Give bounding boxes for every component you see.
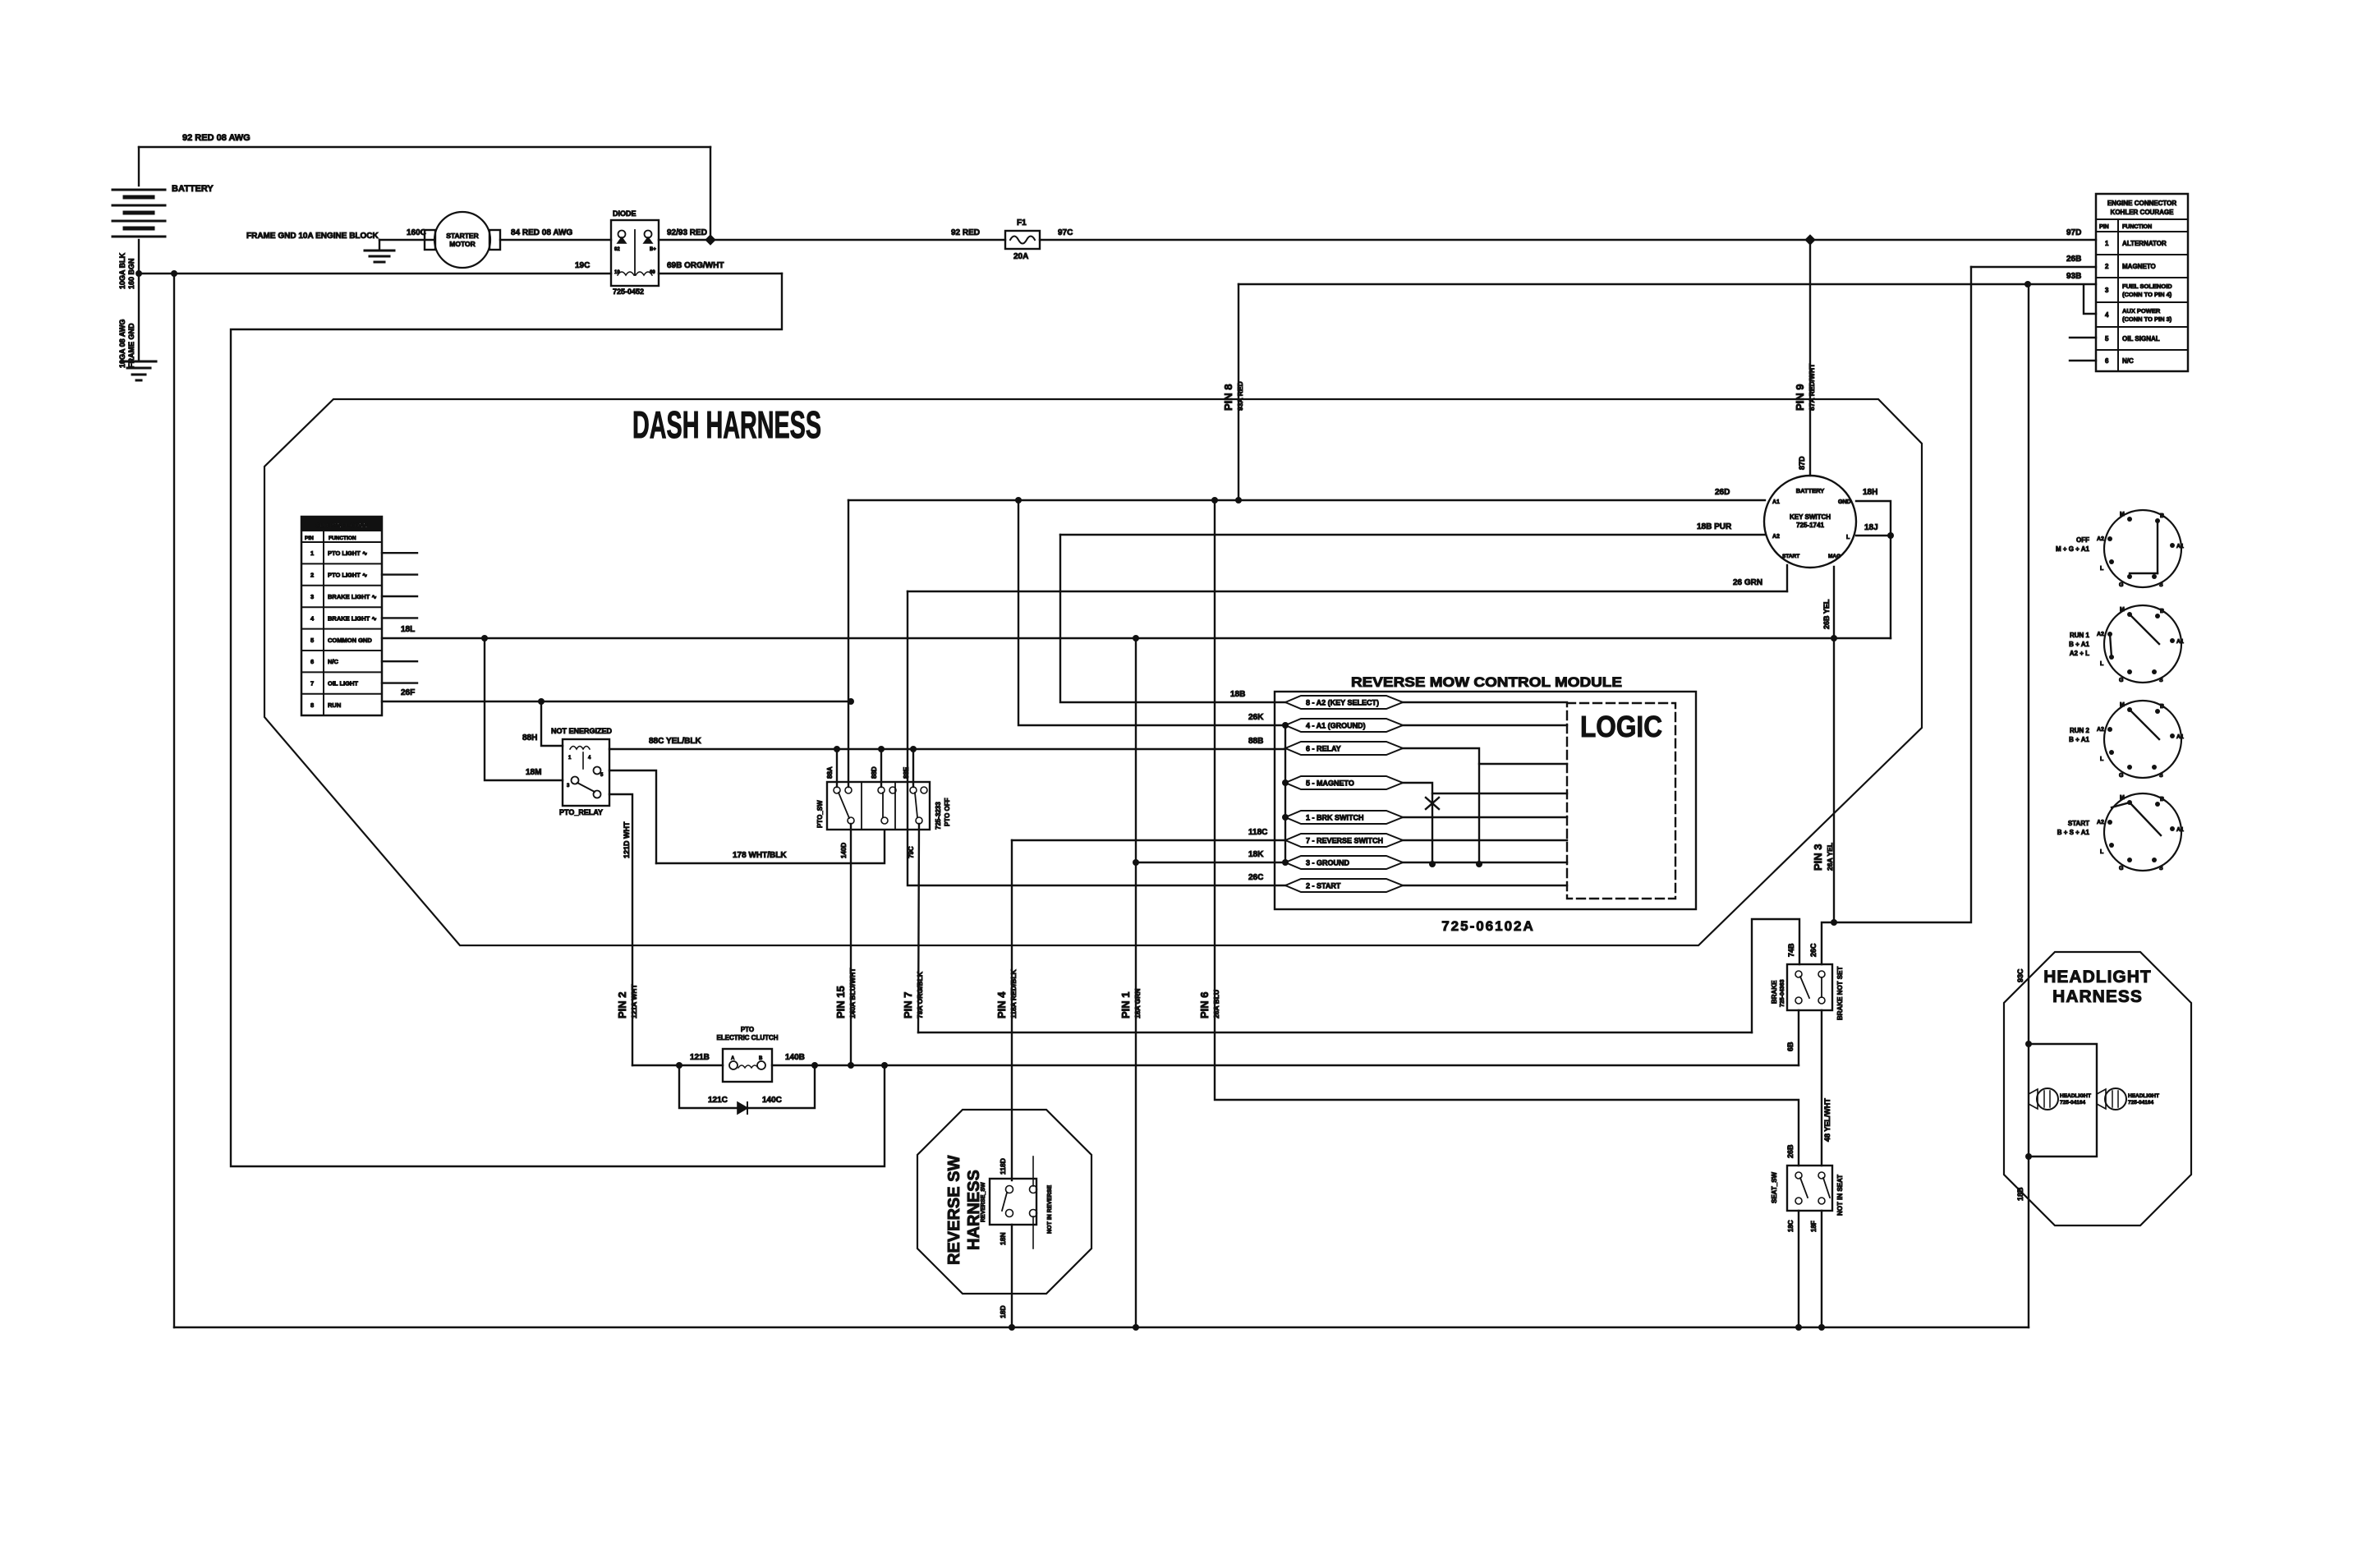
svg-text:1 - BRK SWITCH: 1 - BRK SWITCH xyxy=(1306,814,1364,822)
wire 97C fuse to engine xyxy=(1040,239,2096,241)
ground symbol engine block xyxy=(379,240,380,251)
svg-text:S: S xyxy=(2159,678,2163,683)
svg-text:19: 19 xyxy=(614,270,620,275)
svg-text:B: B xyxy=(2160,513,2164,519)
engine connector table KOHLER COURAGE xyxy=(2096,194,2188,371)
svg-text:A2 + L: A2 + L xyxy=(2070,650,2089,657)
wire 69B loop down-left xyxy=(231,274,885,1166)
svg-text:92: 92 xyxy=(614,247,620,252)
svg-text:S: S xyxy=(2159,866,2163,871)
starter motor M1 xyxy=(425,230,435,250)
svg-text:PIN 4: PIN 4 xyxy=(995,991,1008,1019)
svg-text:BRAKE LIGHT ∿: BRAKE LIGHT ∿ xyxy=(328,593,377,600)
svg-text:M + G + A1: M + G + A1 xyxy=(2056,545,2090,553)
reverse switch harness octagon xyxy=(917,1110,1091,1294)
lamp DS2 headlight right xyxy=(2097,1089,2106,1109)
module pin 6 RELAY connector xyxy=(1285,742,1403,755)
switch S5 REVERSE_SW xyxy=(990,1179,1036,1225)
svg-text:18D: 18D xyxy=(999,1305,1007,1318)
svg-text:A2: A2 xyxy=(2097,727,2104,733)
relay K1 PTO_RELAY xyxy=(563,739,609,806)
svg-text:PTO LIGHT ∿: PTO LIGHT ∿ xyxy=(328,572,368,579)
svg-text:26A YEL: 26A YEL xyxy=(1826,843,1834,871)
svg-text:PIN: PIN xyxy=(2099,224,2109,230)
svg-text:PIN 7: PIN 7 xyxy=(902,991,914,1019)
svg-text:2 - START: 2 - START xyxy=(1306,882,1341,890)
ground symbol frame ground battery xyxy=(138,274,140,360)
wire 140B clutch right xyxy=(772,1064,1799,1066)
svg-text:BATTERY: BATTERY xyxy=(172,184,214,194)
svg-text:6B: 6B xyxy=(1786,1042,1795,1051)
svg-text:26A BLU: 26A BLU xyxy=(1212,990,1220,1019)
svg-text:PIN 3: PIN 3 xyxy=(1812,844,1824,871)
ground bus bottom xyxy=(174,1327,2029,1328)
wire 48 YEL/WHT brake to seat xyxy=(1821,1010,1822,1166)
wire 26K to module A1 ground pill xyxy=(1018,500,1285,725)
battery negative bus 19C xyxy=(139,273,611,274)
wire 160C ground to starter xyxy=(379,239,434,241)
svg-text:GND: GND xyxy=(1838,499,1851,505)
svg-text:BRAKE: BRAKE xyxy=(1771,980,1778,1004)
svg-text:725-1741: 725-1741 xyxy=(1796,522,1824,529)
svg-text:121A WHT: 121A WHT xyxy=(630,983,638,1019)
key position diagram RUN 1 xyxy=(2104,605,2181,683)
svg-text:2: 2 xyxy=(310,572,314,579)
svg-text:STARTER: STARTER xyxy=(446,232,479,240)
svg-text:BATTERY: BATTERY xyxy=(1796,487,1825,494)
wire 26B magneto line to engine pin 2 xyxy=(1971,266,2096,268)
svg-text:A1: A1 xyxy=(2176,827,2184,833)
svg-text:18H: 18H xyxy=(1863,488,1877,497)
svg-text:93A RED: 93A RED xyxy=(1236,381,1244,411)
svg-text:18F: 18F xyxy=(1810,1221,1818,1232)
svg-text:START: START xyxy=(2068,820,2089,827)
wire 84 RED 08 AWG starter to diode xyxy=(500,239,611,241)
svg-text:A1: A1 xyxy=(2176,734,2184,740)
svg-text:121D WHT: 121D WHT xyxy=(623,821,631,858)
svg-text:18A GRN: 18A GRN xyxy=(1133,988,1142,1019)
svg-text:REVERSE_SW: REVERSE_SW xyxy=(981,1182,986,1222)
wire 92/93 RED diode output xyxy=(659,239,1005,241)
svg-text:MAGNETO: MAGNETO xyxy=(2122,263,2156,270)
wire 18N reverse switch out xyxy=(1011,1225,1013,1327)
svg-text:ENGINE CONNECTOR: ENGINE CONNECTOR xyxy=(2107,200,2177,207)
wire 93B fuel solenoid line to engine pin 3 xyxy=(1239,283,2096,285)
svg-text:79C: 79C xyxy=(908,846,915,858)
svg-text:L: L xyxy=(1846,535,1850,540)
svg-text:M: M xyxy=(2120,702,2125,708)
svg-text:725-04164: 725-04164 xyxy=(2060,1100,2085,1106)
svg-text:LOGIC: LOGIC xyxy=(1580,710,1662,743)
wire 88C YEL/BLK relay to PTO switch and module xyxy=(609,748,1285,750)
wire 26 GRN key start line xyxy=(908,591,1787,592)
svg-text:B + A1: B + A1 xyxy=(2069,641,2089,648)
svg-text:160 BGN: 160 BGN xyxy=(127,258,136,289)
svg-text:1: 1 xyxy=(2105,240,2109,247)
svg-text:92 RED 08 AWG: 92 RED 08 AWG xyxy=(182,133,250,143)
svg-text:26K: 26K xyxy=(1248,713,1264,722)
module wire relay branch down xyxy=(1478,764,1480,864)
svg-text:ALTERNATOR: ALTERNATOR xyxy=(2122,240,2167,247)
svg-text:PTO_RELAY: PTO_RELAY xyxy=(559,808,603,816)
svg-text:20A: 20A xyxy=(1013,252,1028,261)
svg-text:26B: 26B xyxy=(2066,255,2081,264)
key position diagram RUN 2 xyxy=(2104,701,2181,778)
svg-text:88B: 88B xyxy=(1248,737,1263,746)
svg-text:3: 3 xyxy=(2105,287,2109,294)
wire 88E stub xyxy=(912,749,914,787)
svg-text:3 - GROUND: 3 - GROUND xyxy=(1306,859,1350,867)
wire PIN 7 79A ORG/BLK xyxy=(918,1032,1752,1033)
wire 140D PTO switch to PIN 15 xyxy=(850,824,852,1065)
svg-text:A2: A2 xyxy=(2097,536,2104,542)
svg-text:A1: A1 xyxy=(2176,544,2184,549)
svg-text:84 RED 08 AWG: 84 RED 08 AWG xyxy=(511,228,572,237)
key position diagram OFF xyxy=(2104,510,2181,587)
svg-text:A2: A2 xyxy=(1772,534,1780,540)
svg-text:160C: 160C xyxy=(407,228,426,237)
svg-text:18C: 18C xyxy=(1787,1220,1795,1232)
svg-text:L: L xyxy=(2100,756,2104,762)
module wire pill3 to logic xyxy=(1403,748,1567,764)
svg-text:88E: 88E xyxy=(903,766,910,779)
wire 18L common ground from dash table xyxy=(382,637,1891,639)
svg-text:G: G xyxy=(2119,866,2124,871)
module pin 8 A2 (KEY SELECT) connector xyxy=(1285,696,1403,709)
svg-text:93B: 93B xyxy=(2066,272,2081,281)
battery BT1 xyxy=(138,147,140,186)
svg-text:B + A1: B + A1 xyxy=(2069,736,2089,743)
svg-text:6: 6 xyxy=(310,658,314,665)
svg-text:PTO_SW: PTO_SW xyxy=(816,800,824,828)
svg-text:COMMON GND: COMMON GND xyxy=(328,637,372,644)
lamp DS1 headlight left xyxy=(2029,1089,2038,1109)
svg-text:18L: 18L xyxy=(401,625,415,634)
wire 79C PTO switch to PIN 7 xyxy=(918,824,919,1032)
wire 18H key ground xyxy=(1856,501,1891,638)
wire 121D WHT relay to PTO clutch xyxy=(609,794,632,1065)
svg-text:PIN: PIN xyxy=(305,536,314,541)
svg-text:B: B xyxy=(2160,797,2164,802)
wire PIN 1 18A GRN ground xyxy=(1135,638,1137,1327)
wire battery top to main power junction xyxy=(710,147,711,240)
key position diagram START xyxy=(2104,793,2181,871)
svg-text:69: 69 xyxy=(650,270,655,275)
svg-text:PIN 2: PIN 2 xyxy=(616,991,628,1019)
svg-text:PIN 8: PIN 8 xyxy=(1222,384,1234,411)
svg-text:18K: 18K xyxy=(1248,850,1264,859)
svg-text:26B YEL: 26B YEL xyxy=(1822,599,1831,629)
svg-text:4 - A1 (GROUND): 4 - A1 (GROUND) xyxy=(1306,722,1366,730)
svg-text:OIL LIGHT: OIL LIGHT xyxy=(328,680,358,687)
svg-text:88H: 88H xyxy=(522,733,537,743)
engine pin 4 aux power bracket xyxy=(2084,286,2096,314)
wire 26C to module start pill xyxy=(908,591,1285,885)
switch S4 SEAT_SW xyxy=(1787,1166,1832,1211)
svg-text:18B PUR: 18B PUR xyxy=(1697,522,1732,531)
svg-text:725-3233: 725-3233 xyxy=(935,802,942,830)
svg-text:S: S xyxy=(2159,773,2163,779)
svg-text:4: 4 xyxy=(2105,311,2109,319)
svg-text:ELECTRIC CLUTCH: ELECTRIC CLUTCH xyxy=(716,1034,778,1042)
module wire magneto jog xyxy=(1403,783,1567,793)
module U1 REVERSE MOW CONTROL MODULE xyxy=(1275,692,1696,909)
svg-text:97C: 97C xyxy=(1058,228,1073,237)
svg-text:118C: 118C xyxy=(1248,828,1267,837)
wire 26F to PTO switch section 1 xyxy=(848,701,849,787)
svg-text:B + S + A1: B + S + A1 xyxy=(2057,829,2090,836)
svg-text:121B: 121B xyxy=(690,1053,710,1062)
svg-text:6 - RELAY: 6 - RELAY xyxy=(1306,745,1341,753)
svg-text:FRAME GND 10A ENGINE BLOCK: FRAME GND 10A ENGINE BLOCK xyxy=(246,232,379,241)
svg-text:PTO: PTO xyxy=(741,1026,754,1033)
svg-text:HEADLIGHT: HEADLIGHT xyxy=(2128,1093,2159,1099)
wire 88D stub xyxy=(880,749,882,787)
svg-text:26C: 26C xyxy=(1248,873,1263,882)
svg-text:G: G xyxy=(2119,582,2124,588)
module pin 4 A1 (GROUND) connector xyxy=(1285,719,1403,732)
svg-text:FUNCTION: FUNCTION xyxy=(2122,224,2152,230)
svg-text:SEAT_SW: SEAT_SW xyxy=(1771,1171,1778,1203)
wire 26F run from dash table xyxy=(382,701,851,702)
svg-text:5: 5 xyxy=(310,637,314,644)
module pin 1 BRK SWITCH connector xyxy=(1285,811,1403,824)
svg-text:OFF: OFF xyxy=(2076,536,2089,544)
module wire pill6 to logic xyxy=(1403,839,1567,841)
svg-text:PIN 6: PIN 6 xyxy=(1198,991,1211,1019)
svg-text:S: S xyxy=(2159,582,2163,588)
svg-text:48 YEL/WHT: 48 YEL/WHT xyxy=(1823,1098,1831,1142)
wire PIN 6 26A BLU seat switch feed xyxy=(1215,500,1799,1166)
module pin 7 REVERSE SWITCH connector xyxy=(1285,834,1403,847)
clutch bypass diode path xyxy=(679,1065,815,1108)
module wire pill8 to logic xyxy=(1403,885,1567,886)
wire PIN 8 93A RED xyxy=(1238,284,1239,500)
svg-text:18B: 18B xyxy=(1230,690,1245,699)
svg-text:N/C: N/C xyxy=(2122,357,2134,365)
svg-text:1: 1 xyxy=(310,549,314,557)
dash table pin stubs xyxy=(382,552,417,554)
wire 18K ground to module pill xyxy=(1136,862,1285,863)
wire 18M ground branch to PTO relay xyxy=(485,638,563,780)
junction main power xyxy=(705,235,715,245)
svg-text:88C YEL/BLK: 88C YEL/BLK xyxy=(649,737,701,746)
module internal bus xyxy=(1284,725,1286,862)
switch S3 BRAKE_SW xyxy=(1787,964,1832,1010)
svg-text:G: G xyxy=(2119,678,2124,683)
module pin 5 MAGNETO connector xyxy=(1285,776,1403,789)
svg-text:DASH HARNESS: DASH HARNESS xyxy=(632,403,821,446)
svg-text:A: A xyxy=(731,1056,735,1061)
svg-text:A1: A1 xyxy=(2176,639,2184,645)
svg-text:B: B xyxy=(759,1056,763,1061)
headlight harness octagon xyxy=(2004,952,2191,1225)
module diode to ground xyxy=(1432,793,1433,864)
svg-text:L: L xyxy=(2100,849,2104,855)
svg-text:KEY SWITCH: KEY SWITCH xyxy=(1790,513,1831,521)
engine pin 6 n/c stub xyxy=(2070,360,2096,361)
wire PIN 2 121A WHT clutch feed xyxy=(632,1064,723,1066)
svg-text:88A: 88A xyxy=(826,766,834,779)
module diode symbol xyxy=(1426,798,1439,809)
svg-text:AUX POWER: AUX POWER xyxy=(2122,307,2161,315)
svg-text:PTO LIGHT ∿: PTO LIGHT ∿ xyxy=(328,549,368,557)
svg-text:10GA BLK: 10GA BLK xyxy=(118,252,126,289)
fuse F1 20A xyxy=(1005,231,1040,249)
svg-text:KOHLER COURAGE: KOHLER COURAGE xyxy=(2111,209,2175,216)
wire 118C reverse switch to module pill xyxy=(1012,839,1285,841)
svg-text:26D: 26D xyxy=(1715,488,1730,497)
svg-text:FUEL SOLENOID: FUEL SOLENOID xyxy=(2122,283,2172,290)
svg-text:(CONN TO PIN 4): (CONN TO PIN 4) xyxy=(2122,291,2172,298)
svg-text:L: L xyxy=(2100,661,2104,667)
svg-text:18M: 18M xyxy=(526,768,541,777)
svg-text:A2: A2 xyxy=(2097,820,2104,825)
svg-text:B: B xyxy=(2160,609,2164,614)
wire 93C headlight feed xyxy=(2028,284,2029,1327)
svg-text:M: M xyxy=(2120,607,2125,613)
svg-text:26C: 26C xyxy=(1809,943,1818,957)
wire 18B to module pill xyxy=(1060,535,1285,702)
svg-text:NOT ENERGIZED: NOT ENERGIZED xyxy=(551,727,613,735)
svg-text:PTO OFF: PTO OFF xyxy=(944,798,951,826)
svg-text:725-0452: 725-0452 xyxy=(613,287,644,296)
engine pin 5 oil signal stub xyxy=(2070,337,2096,338)
svg-text:HEADLIGHT: HEADLIGHT xyxy=(2060,1093,2091,1099)
wire 26 net corner down to PTO area xyxy=(848,500,849,701)
dash sub panel connector table xyxy=(301,517,382,715)
svg-text:NOT IN REVERSE: NOT IN REVERSE xyxy=(1047,1185,1053,1234)
svg-text:PIN 9: PIN 9 xyxy=(1794,384,1806,411)
diode D2 clutch bypass xyxy=(738,1102,747,1114)
svg-text:87A RED/WHT: 87A RED/WHT xyxy=(1808,363,1816,411)
wire 18J key L terminal xyxy=(1856,535,1891,536)
svg-text:92/93 RED: 92/93 RED xyxy=(667,228,707,237)
svg-text:18J: 18J xyxy=(1864,523,1878,532)
wire 6B clutch line to brake switch xyxy=(1798,1010,1799,1065)
svg-text:121C: 121C xyxy=(708,1096,728,1105)
module pin 2 START connector xyxy=(1285,879,1403,892)
key switch S2 725-1741 xyxy=(1764,476,1856,568)
svg-text:SUB PANEL CONN: SUB PANEL CONN xyxy=(316,523,367,529)
clutch L1 PTO ELECTRIC CLUTCH xyxy=(723,1049,772,1082)
svg-text:5: 5 xyxy=(2105,335,2109,343)
diode module D1 725-0452 xyxy=(611,220,659,286)
wire magneto link to engine xyxy=(1834,267,1971,922)
svg-text:B+: B+ xyxy=(650,247,656,252)
svg-text:26F: 26F xyxy=(401,688,415,697)
svg-text:140B: 140B xyxy=(785,1053,805,1062)
svg-text:18B: 18B xyxy=(2016,1187,2024,1201)
svg-text:MAG: MAG xyxy=(1828,554,1841,559)
svg-text:(CONN TO PIN 3): (CONN TO PIN 3) xyxy=(2122,315,2172,323)
svg-text:DIODE: DIODE xyxy=(613,209,637,218)
svg-text:118D: 118D xyxy=(999,1158,1007,1175)
svg-text:MOTOR: MOTOR xyxy=(449,240,475,248)
svg-text:178 WHT/BLK: 178 WHT/BLK xyxy=(733,851,787,860)
svg-text:M: M xyxy=(2120,512,2125,517)
wire 178 WHT/BLK to PTO switch xyxy=(656,831,885,863)
svg-text:19C: 19C xyxy=(575,261,590,270)
svg-text:6: 6 xyxy=(2105,357,2109,365)
svg-text:87D: 87D xyxy=(1798,456,1806,470)
svg-text:26 GRN: 26 GRN xyxy=(1733,578,1762,587)
svg-text:REVERSE MOW CONTROL MODULE: REVERSE MOW CONTROL MODULE xyxy=(1351,674,1622,690)
wire 26D key switch A1 line xyxy=(848,499,1765,501)
svg-text:79A ORG/BLK: 79A ORG/BLK xyxy=(916,971,924,1019)
svg-text:HARNESS: HARNESS xyxy=(2052,987,2143,1006)
switch S1 PTO_SW 725-3233 xyxy=(827,782,930,830)
svg-text:92 RED: 92 RED xyxy=(951,228,980,237)
svg-text:725-06102A: 725-06102A xyxy=(1441,918,1535,934)
wire 26C brake switch branch xyxy=(1822,922,1834,964)
svg-text:RUN 1: RUN 1 xyxy=(2070,632,2090,639)
svg-text:2: 2 xyxy=(2105,263,2109,270)
wire key start down xyxy=(1786,565,1788,591)
svg-text:725-04363: 725-04363 xyxy=(1780,979,1785,1007)
wire 88H relay coil feed xyxy=(541,701,563,746)
svg-text:8: 8 xyxy=(310,701,314,709)
dash harness boundary octagon xyxy=(264,399,1922,945)
svg-text:140A BLU/WHT: 140A BLU/WHT xyxy=(848,968,857,1019)
svg-text:97D: 97D xyxy=(2066,228,2081,237)
wire relay contact to 178 line xyxy=(609,770,656,863)
svg-text:140C: 140C xyxy=(762,1096,782,1105)
module wire pill5 to logic xyxy=(1403,816,1567,818)
svg-text:REVERSE SW: REVERSE SW xyxy=(945,1156,963,1265)
svg-text:M: M xyxy=(2120,795,2125,801)
svg-text:725-04164: 725-04164 xyxy=(2128,1100,2153,1106)
reverse switch right pole stubs xyxy=(1032,1156,1034,1186)
svg-text:A2: A2 xyxy=(2097,632,2104,637)
svg-text:69B ORG/WHT: 69B ORG/WHT xyxy=(667,261,724,270)
wire 69B ORG/WHT diode return xyxy=(659,273,782,274)
junction PIN 9 tap xyxy=(1805,235,1815,245)
wire 26B YEL key magneto xyxy=(1833,567,1835,922)
wire 88A stub xyxy=(836,749,838,787)
svg-text:HEADLIGHT: HEADLIGHT xyxy=(2043,968,2152,986)
wire 18F seat right to ground bus xyxy=(1821,1211,1822,1327)
svg-text:RUN: RUN xyxy=(328,701,341,709)
svg-text:93C: 93C xyxy=(2016,968,2024,982)
svg-text:N/C: N/C xyxy=(328,658,339,665)
svg-text:5 - MAGNETO: 5 - MAGNETO xyxy=(1306,779,1354,788)
svg-text:BRAKE NOT SET: BRAKE NOT SET xyxy=(1836,967,1844,1020)
module pin 3 GROUND connector xyxy=(1285,856,1403,869)
svg-text:OIL SIGNAL: OIL SIGNAL xyxy=(2122,335,2160,343)
wire 74B brake switch feed xyxy=(1752,919,1799,1032)
svg-text:BRAKE LIGHT ∿: BRAKE LIGHT ∿ xyxy=(328,614,377,622)
wire PIN 4 118A RED/BLK reverse switch xyxy=(1011,840,1013,1180)
svg-text:B: B xyxy=(2160,704,2164,710)
svg-text:74B: 74B xyxy=(1787,943,1795,957)
svg-text:140D: 140D xyxy=(840,843,848,858)
module wire pill1 to logic xyxy=(1403,701,1567,703)
ground bus left vertical xyxy=(173,274,175,1327)
svg-text:8 - A2 (KEY SELECT): 8 - A2 (KEY SELECT) xyxy=(1306,699,1379,707)
svg-text:G: G xyxy=(2119,773,2124,779)
svg-text:3: 3 xyxy=(310,593,314,600)
svg-text:118A RED/BLK: 118A RED/BLK xyxy=(1009,968,1018,1019)
svg-text:PIN 15: PIN 15 xyxy=(834,986,847,1019)
svg-text:NOT IN SEAT: NOT IN SEAT xyxy=(1836,1175,1844,1216)
svg-text:A1: A1 xyxy=(1772,499,1780,505)
module wire pill7 ground to logic xyxy=(1403,862,1567,863)
svg-text:18N: 18N xyxy=(999,1232,1007,1245)
headlight loop xyxy=(2029,1044,2097,1156)
wire 92 RED 08 AWG battery positive xyxy=(139,146,710,148)
svg-text:FUNCTION: FUNCTION xyxy=(329,536,356,541)
